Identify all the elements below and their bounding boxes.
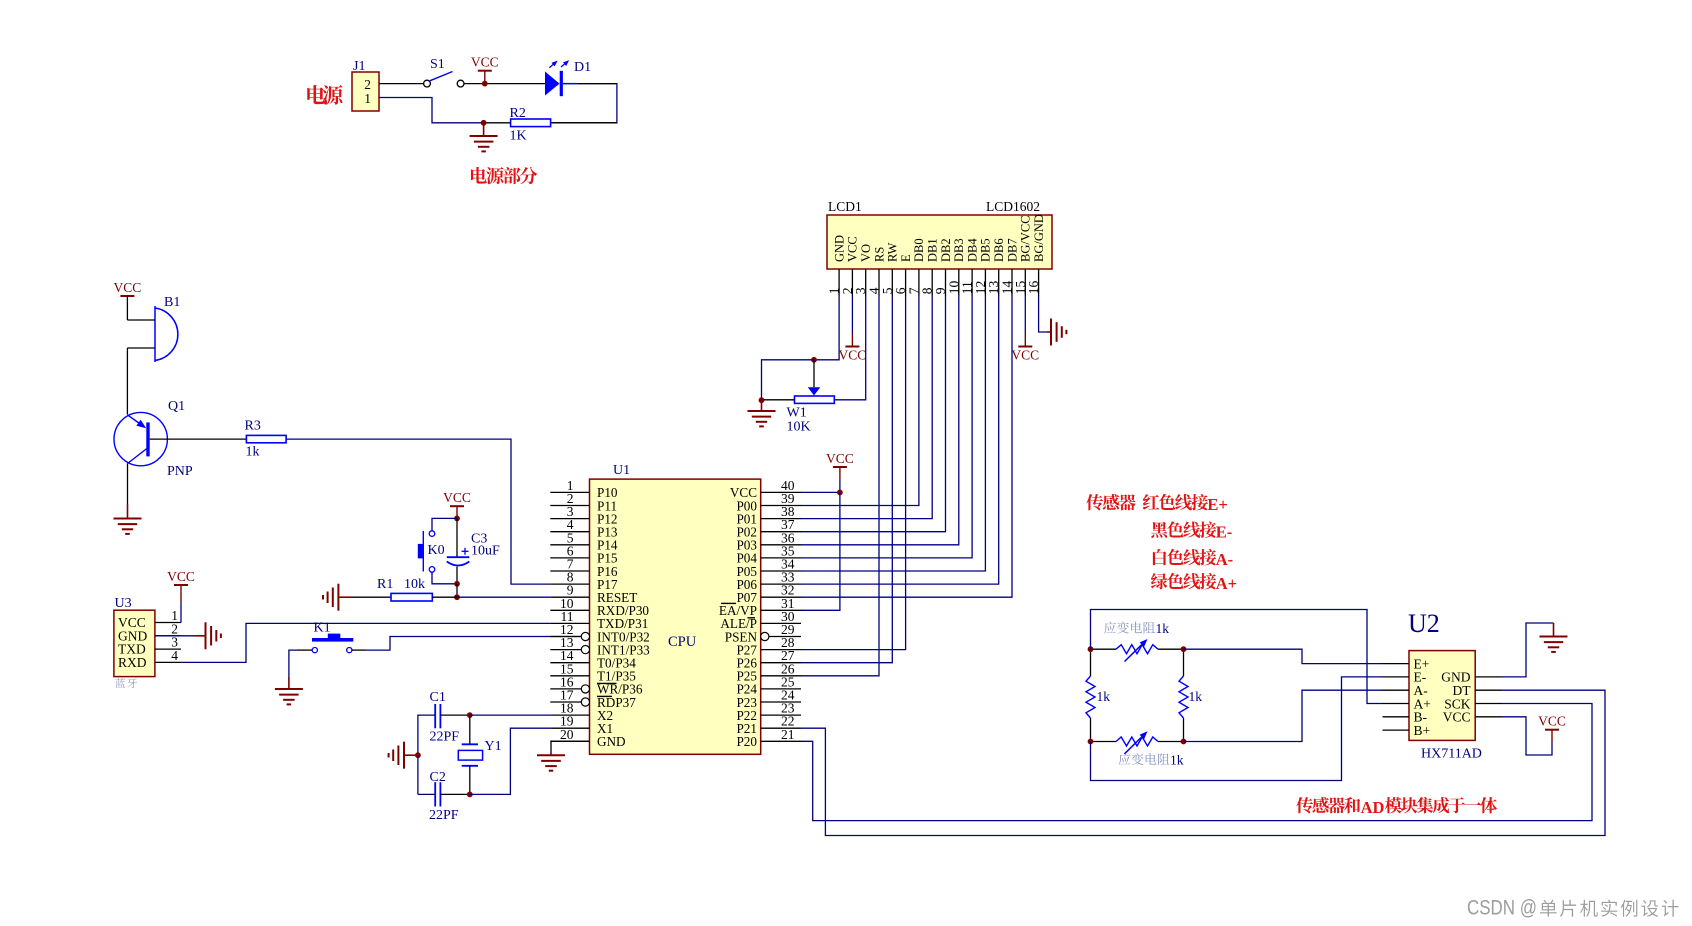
resistor R3: [150, 438, 247, 440]
U3 pin 4 stub: [155, 661, 181, 663]
wire S1 to VCC node: [464, 83, 545, 85]
svg-text:10uF: 10uF: [471, 544, 500, 559]
svg-text:CPU: CPU: [668, 634, 697, 650]
svg-text:B1: B1: [164, 295, 180, 310]
switch S1: [424, 80, 431, 87]
label 蓝牙: [115, 678, 125, 688]
overline RD: [597, 695, 612, 697]
U2 pin A+ stub: [1383, 703, 1410, 705]
U2 right pin stub: [1475, 689, 1502, 691]
U1 pin 6 stub: [550, 557, 589, 559]
svg-text:R2: R2: [510, 106, 526, 121]
U2 pin B+ stub: [1383, 729, 1410, 731]
svg-text:DB0: DB0: [912, 238, 926, 262]
power VCC (switch): [478, 70, 492, 72]
svg-text:BG/GND: BG/GND: [1032, 214, 1046, 262]
U1 pin 8 stub: [550, 583, 589, 585]
U1 pin 33 stub: [761, 583, 801, 585]
note 黑色线接E-: [1151, 522, 1167, 538]
wire bridge bottom-left to E-: [1091, 677, 1383, 781]
note 传感器和AD模块集成于一体: [1296, 797, 1313, 813]
ground (power section): [483, 123, 485, 136]
svg-text:PNP: PNP: [167, 464, 193, 479]
U1 pin 1 stub: [550, 491, 589, 493]
wire U2 GND to ground: [1502, 623, 1554, 677]
junction dot VCC/S1: [482, 81, 488, 87]
U1 pin 26 stub: [761, 675, 801, 677]
module U2 HX711AD: [1409, 651, 1475, 741]
U1 pin 24 stub: [761, 701, 801, 703]
junction dot VCC/K0/C3: [454, 516, 460, 522]
svg-text:Q1: Q1: [168, 399, 185, 414]
svg-text:DB1: DB1: [926, 238, 940, 262]
note 白色线接A-: [1153, 549, 1167, 565]
U1 pin 22 stub: [761, 727, 801, 729]
svg-text:21: 21: [781, 727, 795, 742]
junction dot ground/C1/C2: [415, 752, 421, 758]
svg-text:R3: R3: [245, 419, 261, 434]
svg-text:1k: 1k: [1170, 753, 1184, 768]
svg-text:VCC: VCC: [1011, 348, 1039, 363]
power VCC (reset): [450, 505, 464, 507]
wire bridge top to A+: [1091, 610, 1383, 704]
svg-text:VO: VO: [859, 244, 873, 262]
label 电源: [307, 85, 325, 104]
note 传感器 红色线接E+: [1086, 494, 1103, 510]
U3 pin 1 stub: [155, 622, 181, 624]
svg-text:RXD: RXD: [118, 655, 147, 670]
power VCC (U2): [1545, 729, 1559, 731]
wire VCC to EA/VP: [801, 492, 840, 610]
svg-text:VCC: VCC: [443, 490, 471, 505]
svg-text:DB5: DB5: [979, 238, 993, 262]
capacitor C3 10uF: [456, 518, 458, 557]
U1 pin 4 stub: [550, 531, 589, 533]
svg-text:1: 1: [364, 91, 371, 106]
LED D1: [545, 72, 560, 96]
wire Q1 collector to ground: [127, 464, 129, 505]
U3 pin 2 stub: [155, 635, 181, 637]
U2 pin E+ stub: [1383, 663, 1410, 665]
U1 pin 13 stub: [550, 649, 581, 651]
svg-text:AD: AD: [1361, 798, 1385, 817]
junction dot VCC pin40: [837, 490, 843, 496]
resistor 1k bridge left: [1090, 649, 1092, 676]
wire buzzer to Q1 emitter: [126, 348, 128, 415]
U1 pin 12 stub: [550, 636, 581, 638]
ground (U2): [1540, 637, 1568, 652]
LCD pin2 VCC symbol: [851, 296, 853, 334]
svg-text:C2: C2: [430, 770, 446, 785]
bridge junction dots: [1088, 646, 1094, 652]
svg-text:DB2: DB2: [939, 238, 953, 262]
LCD DB7 wire to P07: [801, 296, 1012, 597]
LCD DB5 wire to P05: [801, 296, 985, 571]
U1 pin 34 stub: [761, 570, 801, 572]
wire U2 DT to CPU P21: [801, 690, 1605, 835]
svg-text:C1: C1: [430, 690, 446, 705]
LCD1 connector LCD1602: [827, 215, 1052, 269]
U2 pin E- stub: [1383, 676, 1410, 678]
ground (crystal, rotated): [389, 742, 404, 769]
svg-text:RS: RS: [872, 247, 886, 262]
U1 pin 11 stub: [550, 622, 589, 624]
svg-text:E: E: [899, 254, 913, 262]
svg-text:Y1: Y1: [485, 739, 502, 754]
U1 pin 36 stub: [761, 544, 801, 546]
ground (W1): [748, 411, 776, 426]
svg-text:S1: S1: [430, 57, 445, 72]
wire W1 left to ground: [762, 399, 795, 401]
LCD pin3 VO wire to W1: [834, 296, 865, 400]
svg-text:1K: 1K: [510, 129, 527, 144]
connector U3 (bluetooth): [114, 610, 155, 676]
svg-text:VCC: VCC: [114, 280, 142, 295]
U1 pin 3 stub: [550, 518, 589, 520]
U1 pin 20 stub: [550, 740, 589, 742]
wire VCC to buzzer: [126, 296, 128, 320]
svg-text:D1: D1: [574, 60, 591, 75]
U2 right pin stub: [1475, 703, 1502, 705]
wire bridge right to E+: [1184, 649, 1383, 663]
svg-text:A-: A-: [1216, 550, 1233, 569]
LCD DB1 wire to P01: [801, 296, 932, 519]
svg-text:20: 20: [560, 727, 574, 742]
U2 pin A- stub: [1383, 689, 1410, 691]
svg-text:A+: A+: [1216, 574, 1237, 593]
LCD pin16 BG/GND to ground: [1039, 296, 1047, 332]
wire C1 right to X2: [440, 714, 469, 716]
LCD RW wire to P26: [801, 296, 892, 663]
strain resistor bottom 应变电阻1k: [1119, 753, 1131, 765]
svg-text:J1: J1: [353, 59, 365, 74]
svg-text:GND: GND: [597, 734, 626, 749]
U1 pin 23 stub: [761, 714, 801, 716]
svg-text:CSDN @: CSDN @: [1467, 896, 1537, 920]
svg-text:K0: K0: [428, 543, 445, 558]
svg-text:K1: K1: [314, 621, 331, 636]
ground (U3, rotated): [206, 622, 221, 649]
wire U3 GND to ground: [155, 635, 193, 637]
svg-text:VCC: VCC: [826, 451, 854, 466]
svg-text:W1: W1: [787, 406, 807, 421]
power VCC (buzzer): [120, 295, 134, 297]
junction dot R2/ground: [481, 120, 487, 126]
crystal Y1: [469, 715, 471, 744]
svg-text:DB6: DB6: [992, 238, 1006, 262]
svg-text:DB7: DB7: [1005, 238, 1019, 262]
svg-text:1k: 1k: [1189, 689, 1203, 704]
svg-text:1k: 1k: [1097, 689, 1111, 704]
wire R3 to CPU P17: [286, 439, 550, 584]
U1 pin 37 stub: [761, 531, 801, 533]
wire C1 left: [418, 715, 435, 755]
svg-text:4: 4: [171, 648, 178, 663]
wire U2 VCC to VCC symbol: [1502, 717, 1552, 755]
U1 pin 7 stub: [550, 570, 589, 572]
ground (R1, rotated): [323, 584, 338, 611]
CPU U1: [590, 479, 761, 754]
wire U3 RXD to CPU TXD/P31: [181, 623, 550, 662]
svg-text:DB3: DB3: [952, 238, 966, 262]
wire bridge bottom-right to A-: [1184, 690, 1383, 741]
U1 pin 39 stub: [761, 505, 801, 507]
U3 pin 3 stub: [155, 648, 181, 650]
svg-text:2: 2: [364, 77, 371, 92]
LCD DB3 wire to P03: [801, 296, 959, 545]
svg-text:LCD1: LCD1: [828, 199, 862, 214]
LCD RS wire to P25: [801, 296, 879, 676]
power VCC (U1 pin40): [833, 466, 847, 468]
wire K0 to C3 bottom: [432, 572, 457, 584]
label 电源部分: [471, 167, 487, 184]
wire K1 right to CPU INT0/P32: [352, 649, 366, 651]
potentiometer W1 10K: [813, 360, 815, 387]
resistor R1 10k: [352, 596, 391, 598]
strain resistor top 应变电阻1k: [1104, 622, 1116, 634]
U1 pin 21 stub: [761, 740, 801, 742]
svg-text:U2: U2: [1408, 609, 1440, 638]
svg-text:1k: 1k: [1156, 621, 1170, 636]
LCD DB0 wire to P00: [801, 296, 919, 506]
wire R1 to CPU RESET: [432, 596, 457, 598]
button K0: [432, 518, 457, 530]
LCD pin15 BG/VCC symbol: [1024, 296, 1026, 334]
U1 pin 31 stub: [761, 609, 801, 611]
svg-text:VCC: VCC: [846, 236, 860, 262]
U2 right pin stub: [1475, 716, 1502, 718]
svg-text:DB4: DB4: [965, 238, 979, 262]
U1 pin 32 stub: [761, 596, 801, 598]
U1 pin 5 stub: [550, 544, 589, 546]
wire U2 SCK to CPU P20: [801, 704, 1592, 821]
overline WR: [597, 682, 617, 684]
svg-text:RW: RW: [886, 242, 900, 262]
svg-text:1k: 1k: [246, 445, 260, 460]
resistor 1k bridge right: [1183, 649, 1185, 676]
U1 pin 35 stub: [761, 557, 801, 559]
U1 pin 2 stub: [550, 505, 589, 507]
U1 pin 28 stub: [761, 649, 801, 651]
svg-text:GND: GND: [832, 235, 846, 262]
U1 pin 15 stub: [550, 675, 589, 677]
U1 pin 14 stub: [550, 662, 589, 664]
junction dot wiper: [811, 357, 817, 363]
svg-text:BG/VCC: BG/VCC: [1019, 215, 1033, 262]
ground (K1): [275, 689, 303, 704]
svg-text:22PF: 22PF: [429, 808, 459, 823]
U1 pin 30 stub: [761, 622, 801, 624]
svg-text:VCC: VCC: [167, 569, 195, 584]
resistor R2: [511, 119, 551, 127]
svg-text:B+: B+: [1414, 723, 1431, 738]
overline ALE/P final P: [748, 617, 756, 619]
svg-text:10k: 10k: [404, 577, 425, 592]
svg-text:R1: R1: [377, 577, 393, 592]
transistor Q1 PNP: [114, 412, 167, 465]
U1 pin 9 stub: [550, 596, 589, 598]
svg-text:10K: 10K: [787, 420, 811, 435]
svg-text:22PF: 22PF: [430, 730, 460, 745]
U1 pin 38 stub: [761, 518, 801, 520]
junction dot C2/Y1/X1: [467, 792, 473, 798]
LCD E wire to P27: [801, 296, 906, 650]
svg-text:U3: U3: [115, 596, 132, 611]
U1 pin 29 stub: [761, 632, 769, 640]
wire J1 pin2 to S1: [379, 83, 424, 85]
U1 pin 40 stub: [761, 491, 801, 493]
U2 pin B- stub: [1383, 716, 1410, 718]
U1 pin 17 stub: [550, 701, 581, 703]
ground (Q1): [114, 519, 142, 534]
svg-text:HX711AD: HX711AD: [1421, 747, 1482, 762]
svg-text:E+: E+: [1207, 495, 1227, 514]
overline EA: [721, 602, 736, 604]
svg-text:VCC: VCC: [839, 348, 867, 363]
junction dot C1/Y1/X2: [467, 712, 473, 718]
U1 pin 10 stub: [550, 609, 589, 611]
wire K1 left to ground: [297, 649, 312, 651]
junction dot C3/R1/RESET: [454, 594, 460, 600]
note 绿色线接A+: [1151, 573, 1168, 589]
LCD pin1 GND wire to W1 wiper: [814, 296, 839, 360]
LCD DB6 wire to P06: [801, 296, 999, 584]
wire D1 to right corner: [551, 84, 617, 123]
svg-text:LCD1602: LCD1602: [986, 199, 1040, 214]
U1 pin 25 stub: [761, 688, 801, 690]
junction dot W1 ground: [759, 397, 765, 403]
U1 GND pin 20 to ground: [551, 741, 590, 752]
power VCC (U3): [174, 584, 188, 586]
wire R2 to J1 pin1: [484, 122, 511, 124]
U1 pin 18 stub: [550, 714, 589, 716]
U1 pin 27 stub: [761, 662, 801, 664]
ground (LCD, rotated): [1051, 319, 1066, 346]
wire pin40 VCC: [801, 491, 840, 493]
LCD DB2 wire to P02: [801, 296, 946, 532]
buzzer B1: [154, 306, 156, 362]
svg-text:U1: U1: [613, 463, 630, 478]
svg-text:VCC: VCC: [471, 55, 499, 70]
wire C2 to X1: [470, 728, 551, 794]
svg-text:VCC: VCC: [1443, 710, 1471, 725]
U1 pin 19 stub: [550, 727, 589, 729]
svg-text:VCC: VCC: [1538, 714, 1566, 729]
junction dot C3/K0: [454, 581, 460, 587]
LCD DB4 wire to P04: [801, 296, 972, 558]
svg-text:P20: P20: [736, 734, 757, 749]
svg-text:E-: E-: [1216, 523, 1233, 542]
U1 pin 16 stub: [550, 688, 581, 690]
connector J1: [352, 72, 379, 111]
U2 right pin stub: [1475, 676, 1502, 678]
